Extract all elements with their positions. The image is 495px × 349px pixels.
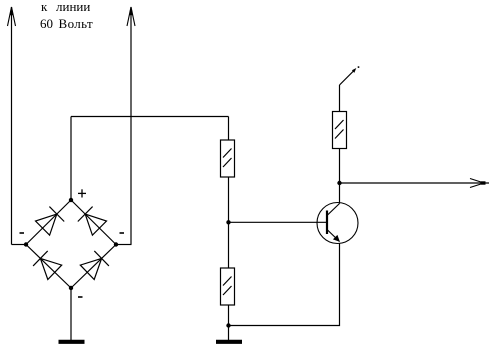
label: 60 Вольт bbox=[40, 16, 53, 32]
diode bridge: bottom-left diode bbox=[26, 245, 71, 289]
diode bridge: bottom-right diode bbox=[71, 245, 116, 289]
wire: R2 bottom to ground node bbox=[228, 305, 230, 326]
wire: node up to resistor R3 bbox=[339, 148, 341, 183]
arrowhead: output arrow bbox=[470, 179, 486, 188]
wire: output line bbox=[340, 182, 490, 184]
label: к линии bbox=[41, 0, 47, 15]
ground (bridge) bbox=[59, 340, 85, 344]
wire: base lead to transistor bbox=[229, 221, 328, 223]
label: - at bridge bottom bbox=[78, 296, 83, 298]
wire: bus down to resistor R1 bbox=[228, 117, 230, 141]
label: - at bridge right bbox=[120, 232, 125, 234]
wire: R3 top lead bbox=[339, 85, 341, 112]
diode bridge: top-left diode bbox=[26, 200, 71, 245]
diode bridge: top-right diode bbox=[71, 200, 116, 245]
resistor R1 (upper divider) bbox=[221, 140, 235, 177]
label: - at bridge left bbox=[20, 232, 25, 234]
wire: collector up to output node bbox=[339, 183, 341, 204]
resistor R3 (collector load) bbox=[333, 112, 347, 149]
wire: down to ground bbox=[228, 326, 230, 341]
wire: left stub to bridge left node bbox=[12, 244, 27, 246]
wire: slanted tap lead bbox=[340, 70, 356, 86]
arrowhead: right up-arrow to 60V line bbox=[127, 7, 135, 26]
ground (divider/emitter) bbox=[216, 340, 242, 344]
arrowhead: left up-arrow to 60V line bbox=[8, 7, 16, 26]
node: collector/output junction bbox=[337, 181, 341, 185]
node: bridge left AC bbox=[24, 242, 28, 246]
wire: R1 bottom to mid node bbox=[228, 177, 230, 268]
resistor R2 (lower divider) bbox=[221, 268, 235, 305]
arrowhead: tap arrow bbox=[352, 66, 359, 73]
transistor Q1 bbox=[317, 203, 358, 244]
node: divider mid junction bbox=[226, 220, 230, 224]
wire: right supply lead (vertical, crosses top bus) bbox=[130, 7, 132, 245]
label: + at bridge top bbox=[78, 189, 86, 197]
node: bridge right AC bbox=[114, 242, 118, 246]
wire: bridge + output up to top bus bbox=[70, 117, 72, 201]
node: bridge - (bottom) bbox=[69, 286, 73, 290]
wire: left supply lead (vertical) bbox=[11, 7, 13, 245]
wire: top horizontal bus bbox=[71, 116, 229, 118]
wire: emitter return to ground node bbox=[229, 243, 340, 326]
wire: bridge - down to ground bbox=[70, 288, 72, 340]
node: bottom junction bbox=[226, 323, 230, 327]
node: bridge + (top) bbox=[69, 198, 73, 202]
wire: right stub to bridge right node bbox=[116, 244, 132, 246]
